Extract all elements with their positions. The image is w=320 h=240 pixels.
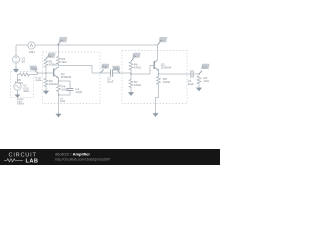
resistor R5 (source, horizontal) [19,73,30,76]
svg-text:10kΩ: 10kΩ [49,82,57,86]
resistor R3 [57,56,61,65]
label C4 [188,79,195,86]
resistor R6 (stage2 lower divider) [129,79,133,88]
svg-text:http://circuitlab.com/c6u62qmd: http://circuitlab.com/c6u62qmda3997 [55,158,111,162]
resistor R1 [44,59,48,68]
svg-text:LAB: LAB [26,158,39,164]
capacitor C1 [67,88,74,90]
wire R5b bottom to base node [130,70,132,80]
label R5 50 [17,78,23,85]
svg-text:source: source [17,103,25,106]
wire R6 bottom to ground [130,87,132,92]
transistor Q2 [154,60,159,71]
label R3 [61,57,67,64]
flag V+ (R1 top) [46,53,56,59]
ground (below V2) [15,94,21,98]
svg-text:100Ω: 100Ω [163,80,171,84]
svg-text:2N3904: 2N3904 [61,75,72,79]
svg-text:1kΩ: 1kΩ [61,60,67,64]
svg-text:5V: 5V [22,60,26,64]
wire rail drop to R3 [58,45,60,56]
signal source dashed box [11,72,34,98]
wire R1 bottom to node [45,67,47,78]
flag out1 [101,64,110,73]
resistor R2 [44,78,48,87]
svg-text:10µF: 10µF [75,90,82,94]
flag V+ (R5b top) [131,53,141,62]
svg-text:1kHz: 1kHz [23,89,30,93]
label R1 [49,60,59,67]
svg-text:2N3904: 2N3904 [161,65,172,69]
label R9 [203,76,209,83]
wire stage1 output [59,66,111,74]
wire V2 top to R5 [18,75,20,84]
flag V_out [199,64,210,74]
svg-text:47kΩ: 47kΩ [134,66,142,70]
ammeter AM1 [28,42,35,49]
label Q2 [161,62,172,69]
footer text line 1 [55,151,90,156]
ground (stage2 emitter) [152,113,158,117]
resistor R8 (load) [197,76,201,85]
flag in2 [112,66,120,73]
resistor R5b (stage2 upper divider) [129,62,133,71]
label R4 [61,84,69,91]
svg-text:node: node [35,78,42,82]
ground (stage2 divider) [128,92,134,96]
label V2 lines [23,83,30,93]
label under input flag [35,75,42,82]
amplifier stage 2 dashed box [122,51,187,104]
svg-text:10µF: 10µF [107,79,114,83]
wire R7 bottom jog to ground [156,84,159,113]
amplifier stage 1 dashed box [43,52,101,104]
label R7d [134,80,142,87]
ground (stage1 emitter) [55,113,61,117]
wire R5 to stage1 base node [29,73,54,75]
flag V+ (rail, stage2) [158,37,168,45]
wire VCC rail [16,44,158,46]
wire R4 bottom to ground [58,92,60,114]
wire C2 to stage2 [113,66,154,75]
svg-text:1kΩ: 1kΩ [60,99,65,103]
svg-text:1kΩ: 1kΩ [203,79,209,83]
capacitor C2 (coupling) [110,69,112,76]
ground (R2) [43,90,49,94]
wire V2 bottom [17,90,19,94]
footer bar [0,149,220,165]
svg-text:10µF: 10µF [188,82,195,86]
wire Q2 emitter down [158,71,160,77]
flag V_in (input node) [30,66,38,73]
voltage source V1 [12,56,19,63]
wire emitter node to C4 [159,73,191,75]
transistor Q1 [54,67,59,78]
wire C4 to out node [193,73,199,75]
wire emitter node to C1 top [59,81,71,88]
wire R3 bottom to Q1 collector [58,64,60,67]
wire R2 bottom to ground [45,86,47,90]
label C2 [107,77,114,84]
svg-text:AM1: AM1 [29,50,36,54]
caption under source box [17,98,25,105]
CircuitLab logo [9,153,37,159]
svg-text:10kΩ: 10kΩ [134,83,142,87]
capacitor C4 (output coupling) [191,70,193,77]
node junction dots [45,44,200,96]
svg-text:CIRCUIT: CIRCUIT [9,153,37,159]
ground (below V1) [13,68,19,73]
label R8e [163,77,171,84]
wire R8 bottom to ground [198,85,200,88]
label Q1 [61,72,72,79]
ground (load) [196,87,202,91]
wire Q1 emitter down [58,78,60,83]
svg-text:d6ufc22 / Amplifier: d6ufc22 / Amplifier [55,151,90,156]
wire V1 top [15,45,17,56]
resistor R4 [57,83,61,92]
label V1 5V [22,57,26,64]
label C1 [75,87,82,94]
label node tiny [60,96,65,103]
source V2 (sine) [14,81,21,90]
resistor R7 (emitter) [157,76,161,85]
wire V1 bottom to ground [15,63,17,68]
footer text line 2 [55,158,111,162]
flag V+ (rail, stage1) [58,37,68,45]
wire C1 bottom loop [59,91,71,95]
wire rail drop to Q2 collector [157,45,159,60]
label R2 [49,79,57,86]
label AM1 [29,50,36,54]
label R6u [134,63,142,70]
